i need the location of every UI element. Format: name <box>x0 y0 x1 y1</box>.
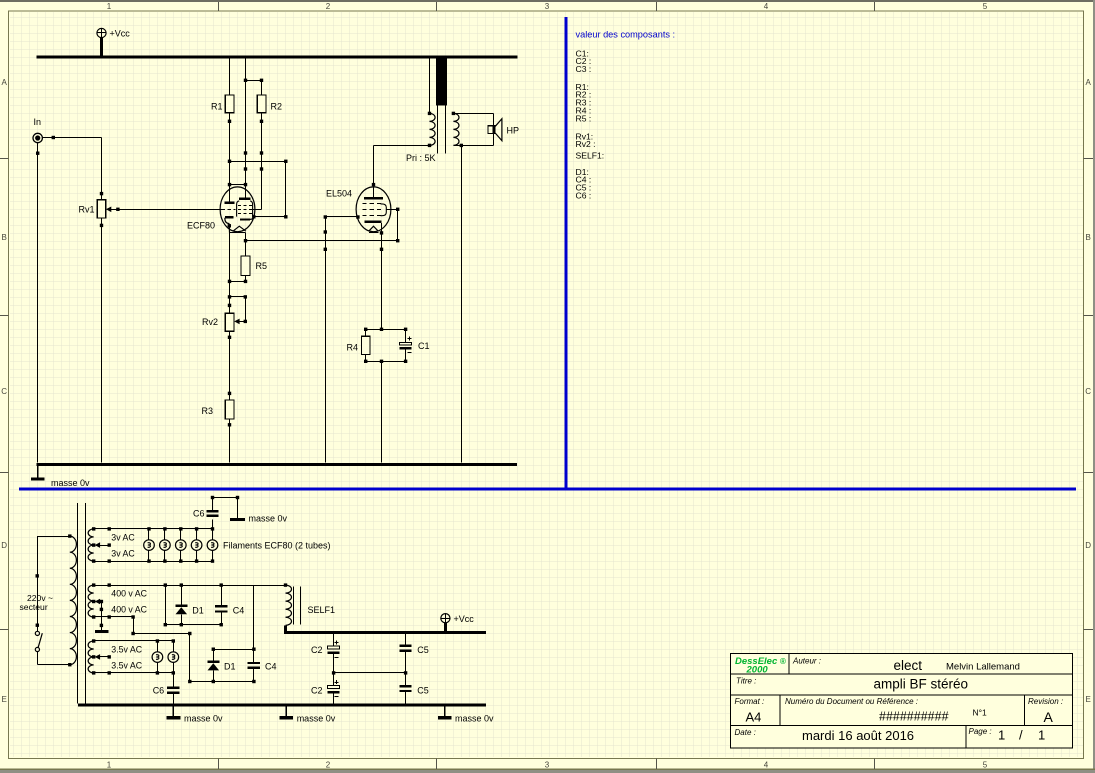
wire 400v lower tap chain <box>94 615 192 681</box>
svg-text:2: 2 <box>326 2 331 11</box>
svg-text:Revision :: Revision : <box>1028 697 1063 706</box>
capacitor C2 (filter upper) <box>328 634 340 673</box>
wire 400v return loop <box>164 585 167 626</box>
tube EL504 U2 <box>356 187 391 233</box>
svg-text:N°1: N°1 <box>973 707 988 717</box>
svg-text:Melvin Lallemand: Melvin Lallemand <box>946 661 1020 672</box>
svg-text:SELF1:: SELF1: <box>576 151 605 161</box>
svg-text:Rv2: Rv2 <box>202 317 218 327</box>
svg-text:C2: C2 <box>311 686 323 696</box>
svg-text:ECF80: ECF80 <box>187 221 215 231</box>
svg-text:C5: C5 <box>417 686 429 696</box>
svg-text:elect: elect <box>894 658 923 673</box>
section separator vertical blue line <box>564 17 567 489</box>
wire branch to Rv2 wiper <box>228 295 247 324</box>
svg-text:3.5v AC: 3.5v AC <box>111 660 142 670</box>
svg-text:/: / <box>1019 728 1023 743</box>
svg-text:400 v AC: 400 v AC <box>111 588 147 598</box>
logo DessElec 2000 <box>735 656 786 675</box>
svg-text:Rv2 :: Rv2 : <box>576 139 596 149</box>
svg-text:Auteur :: Auteur : <box>792 656 821 665</box>
wire mains top <box>36 536 70 631</box>
svg-text:D: D <box>1 541 7 550</box>
labels 3.5v AC <box>111 644 142 670</box>
svg-text:SELF1: SELF1 <box>308 605 336 615</box>
svg-text:400 v AC: 400 v AC <box>111 604 147 614</box>
tube ECF80 U1 <box>220 185 255 233</box>
wire loop triode plate to pentode cathode <box>230 160 288 219</box>
svg-text:5: 5 <box>983 760 988 769</box>
node filter middle rail <box>332 671 407 674</box>
svg-text:C1: C1 <box>418 341 430 351</box>
wire Rv1 wiper to ECF80 triode grid <box>111 208 222 211</box>
svg-text:R3: R3 <box>202 406 214 416</box>
svg-text:C4: C4 <box>233 606 245 616</box>
resistor R2 <box>257 95 266 113</box>
wire T1 primary to EL504 plate <box>374 145 430 147</box>
wire bus to pentode plate (vertical) <box>244 59 247 198</box>
resistor R5 <box>241 256 250 276</box>
resistor R1 <box>225 95 234 113</box>
wire 400v bottom rail <box>165 623 223 626</box>
svg-text:4: 4 <box>764 2 769 11</box>
wire 400v top rail HT <box>94 583 286 586</box>
svg-text:3: 3 <box>545 760 550 769</box>
resistor R4 <box>362 329 370 361</box>
potentiometer Rv2 <box>225 313 234 331</box>
svg-text:R4: R4 <box>347 343 359 353</box>
svg-text:1: 1 <box>107 760 112 769</box>
svg-text:Numéro du Document ou Référenc: Numéro du Document ou Référence : <box>785 697 918 706</box>
svg-text:2: 2 <box>326 760 331 769</box>
svg-text:R2: R2 <box>271 101 283 111</box>
capacitor C6 (heater bypass bottom) <box>167 673 179 704</box>
ground bus 0v (bottom thick wire) <box>78 704 486 707</box>
tap stub 3.5v winding <box>95 654 111 660</box>
svg-text:4: 4 <box>764 760 769 769</box>
svg-text:masse 0v: masse 0v <box>455 714 494 724</box>
transformer T1 secondary coil <box>452 112 459 146</box>
section separator horizontal blue line <box>19 488 1076 491</box>
svg-text:Titre :: Titre : <box>736 677 756 686</box>
wire R5 bottom jog <box>228 276 247 284</box>
capacitor C5 (filter upper) <box>400 634 412 673</box>
svg-text:E: E <box>1086 695 1091 704</box>
svg-text:1: 1 <box>1038 728 1045 743</box>
svg-text:##########: ########## <box>879 709 949 723</box>
wire T1 secondary to ground <box>460 144 463 463</box>
filament lamps EL504 heaters <box>152 641 179 673</box>
svg-text:EL504: EL504 <box>326 189 352 199</box>
svg-text:1: 1 <box>107 2 112 11</box>
diode D1 (second rectifier) <box>207 649 219 681</box>
transformer T2 secondary 3v winding <box>88 527 95 563</box>
filament lamps ECF80 heaters <box>144 527 218 563</box>
svg-text:Rv1: Rv1 <box>79 205 95 215</box>
svg-text:R5 :: R5 : <box>576 113 592 123</box>
transformer T2 secondary 3.5v winding <box>88 639 95 674</box>
tap 400v winding to ground <box>95 599 103 630</box>
node R4 C1 bottom rail <box>364 360 407 363</box>
ground symbol masse 0v (middle) <box>279 707 293 720</box>
transformer T2 primary coil 220v <box>68 534 76 666</box>
svg-text:C6: C6 <box>193 509 205 519</box>
wire second rectifier bottom rail <box>188 680 255 683</box>
wire cathode rail to EL504 grid loop <box>246 239 400 242</box>
svg-text:secteur: secteur <box>20 602 48 612</box>
wire second rectifier top rail <box>212 648 254 651</box>
B+ supply bus (top thick wire) <box>37 56 518 59</box>
svg-text:3v AC: 3v AC <box>111 532 135 542</box>
svg-text:R5: R5 <box>256 261 268 271</box>
svg-text:1: 1 <box>998 728 1005 743</box>
svg-text:mardi 16 août 2016: mardi 16 août 2016 <box>802 728 914 743</box>
svg-text:3v AC: 3v AC <box>111 548 135 558</box>
wire R4 C1 to ground bus <box>381 361 383 462</box>
power symbol +Vcc (bottom) <box>441 614 474 631</box>
svg-text:HP: HP <box>507 126 520 136</box>
potentiometer Rv1 <box>97 200 111 218</box>
capacitor C6 (heater bypass top) <box>206 496 239 529</box>
wire 3.5v top rail <box>94 639 175 642</box>
transformer T2 core (220v mains) <box>78 503 86 704</box>
ground symbol masse 0v (right) <box>438 707 452 720</box>
switch mains <box>35 631 42 651</box>
wire HP bottom return <box>453 134 493 146</box>
wire R2 bottom to ECF80 pentode grid <box>260 113 263 210</box>
diode D1 (HT rectifier) <box>175 585 187 625</box>
svg-text:C: C <box>1 387 7 396</box>
tap stub 3v winding <box>95 542 111 548</box>
svg-text:3: 3 <box>545 2 550 11</box>
svg-text:R1: R1 <box>211 101 223 111</box>
svg-text:masse 0v: masse 0v <box>249 513 288 523</box>
svg-text:Format :: Format : <box>735 697 765 706</box>
svg-text:A4: A4 <box>746 710 762 725</box>
svg-text:masse 0v: masse 0v <box>184 714 223 724</box>
wire pentode grid link <box>253 209 262 211</box>
B+ output bus (bottom thick wire) <box>284 625 486 634</box>
svg-text:+Vcc: +Vcc <box>110 29 131 39</box>
svg-text:D: D <box>1085 541 1091 550</box>
wire branch to R2 <box>246 79 264 95</box>
wire 3v bottom rail <box>94 559 213 562</box>
ground symbol masse 0v (left) <box>167 707 181 720</box>
transformer T1 core <box>438 106 446 154</box>
wire jack ground down <box>36 143 39 463</box>
svg-text:5: 5 <box>983 2 988 11</box>
node R4 C1 top rail <box>364 328 407 331</box>
svg-text:Page :: Page : <box>969 727 992 736</box>
capacitor C4 (HT filter) <box>215 585 228 625</box>
capacitor C2 (filter lower) <box>328 673 340 704</box>
svg-text:masse 0v: masse 0v <box>51 478 90 488</box>
svg-text:C3 :: C3 : <box>576 64 592 74</box>
svg-text:Date :: Date : <box>735 728 756 737</box>
wire Rv1 bottom to ground <box>100 218 103 463</box>
capacitor C1 <box>399 329 411 361</box>
svg-text:D1: D1 <box>224 662 236 672</box>
capacitor C4 (second filter) <box>248 585 261 681</box>
wire EL504 left grid to ground leg <box>324 215 360 462</box>
svg-text:C6 :: C6 : <box>576 190 592 200</box>
ground bus 0v (top section thick wire) <box>37 463 518 466</box>
wire mains bottom <box>37 652 69 665</box>
transformer T1 primary coil Pri 5K <box>428 113 435 147</box>
svg-text:C: C <box>1085 387 1091 396</box>
svg-text:C4: C4 <box>265 662 277 672</box>
wire 3v top rail <box>94 527 213 530</box>
svg-text:Pri : 5K: Pri : 5K <box>406 153 436 163</box>
labels 400 v AC <box>111 588 147 614</box>
input jack In <box>33 133 42 142</box>
wire ECF80 cathode down to R5 <box>244 233 247 256</box>
svg-text:Filaments ECF80 (2 tubes): Filaments ECF80 (2 tubes) <box>223 541 331 551</box>
wire EL504 plate lead <box>372 145 375 196</box>
svg-text:valeur des composants :: valeur des composants : <box>576 30 676 40</box>
ground symbol masse 0v (top) <box>31 466 45 481</box>
transformer T2 secondary 400v winding <box>88 583 95 618</box>
svg-text:C6: C6 <box>153 685 165 695</box>
wire R1 bottom to ECF80 triode plate <box>228 113 231 202</box>
svg-text:B: B <box>2 233 7 242</box>
wire triode cathode chain down <box>228 233 231 314</box>
ground symbol masse 0v (heater) <box>230 498 245 522</box>
svg-text:In: In <box>34 117 42 127</box>
transformer T1 primary feed thick bar <box>436 59 447 106</box>
wire R3 to ground bus <box>228 419 231 462</box>
svg-text:A: A <box>1044 709 1054 725</box>
wire bus to T1 primary <box>428 59 431 116</box>
svg-text:E: E <box>2 695 7 704</box>
capacitor C5 (filter lower) <box>400 673 412 704</box>
page 1 / 1 <box>998 728 1045 743</box>
svg-text:+Vcc: +Vcc <box>454 614 475 624</box>
inductor SELF1 <box>284 583 301 625</box>
speaker HP <box>488 119 502 141</box>
wire EL504 grid right loop <box>386 208 399 241</box>
svg-text:B: B <box>1086 233 1091 242</box>
wire bus to R1 <box>229 59 231 95</box>
wire 3.5v bottom rail <box>94 671 175 674</box>
svg-text:D1: D1 <box>192 606 204 616</box>
svg-text:A: A <box>2 78 8 87</box>
svg-text:A: A <box>1086 78 1092 87</box>
svg-text:C5: C5 <box>417 645 429 655</box>
label 220v secteur <box>20 593 54 612</box>
svg-text:ampli BF stéréo: ampli BF stéréo <box>874 677 969 692</box>
component values list <box>576 48 605 200</box>
wire EL504 cathode down to R4 C1 <box>380 223 383 329</box>
ground symbol masse (400v center tap) <box>95 630 109 633</box>
resistor R3 <box>225 400 234 419</box>
svg-text:2000: 2000 <box>746 664 769 675</box>
svg-text:masse 0v: masse 0v <box>297 714 336 724</box>
labels 3v AC <box>111 532 135 558</box>
wire Rv2 to R3 <box>228 331 231 400</box>
power symbol +Vcc (top) <box>97 28 130 55</box>
wire T1 secondary to HP top <box>453 113 493 125</box>
title block frame <box>731 653 1073 747</box>
svg-text:3.5v AC: 3.5v AC <box>111 644 142 654</box>
wire jack to Rv1 top <box>42 136 103 200</box>
svg-text:C2: C2 <box>311 645 323 655</box>
